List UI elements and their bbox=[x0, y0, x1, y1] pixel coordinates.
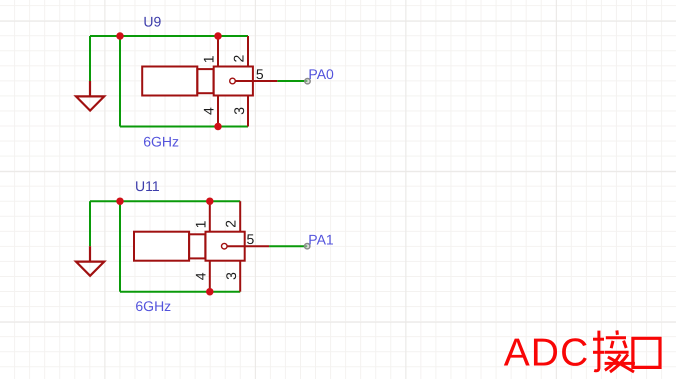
svg-text:5: 5 bbox=[247, 231, 255, 247]
svg-text:5: 5 bbox=[256, 66, 264, 82]
svg-text:4: 4 bbox=[201, 107, 217, 115]
svg-text:2: 2 bbox=[223, 220, 239, 228]
svg-text:3: 3 bbox=[231, 107, 247, 115]
svg-text:1: 1 bbox=[193, 220, 209, 228]
svg-text:PA1: PA1 bbox=[308, 231, 334, 247]
svg-text:4: 4 bbox=[193, 272, 209, 280]
svg-text:1: 1 bbox=[201, 55, 217, 63]
svg-text:U11: U11 bbox=[135, 178, 160, 194]
svg-text:6GHz: 6GHz bbox=[135, 298, 171, 314]
svg-text:3: 3 bbox=[223, 272, 239, 280]
svg-text:PA0: PA0 bbox=[308, 66, 334, 82]
svg-text:U9: U9 bbox=[143, 13, 161, 29]
svg-text:ADC: ADC bbox=[504, 332, 590, 375]
svg-text:2: 2 bbox=[231, 54, 247, 62]
svg-text:6GHz: 6GHz bbox=[143, 133, 179, 149]
